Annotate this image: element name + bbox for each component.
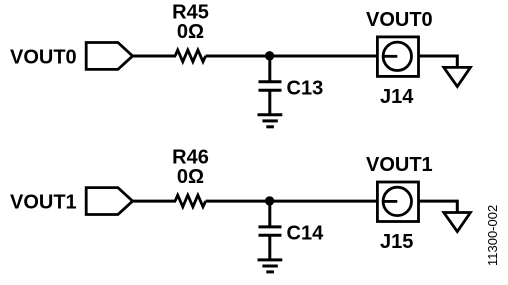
junction node	[265, 196, 274, 205]
wire junction to C13	[268, 56, 271, 82]
ground (C14)	[258, 260, 283, 272]
svg-text:J14: J14	[380, 86, 414, 108]
svg-text:11300-002: 11300-002	[485, 205, 500, 266]
wire J15 to ground	[419, 201, 458, 213]
svg-text:VOUT0: VOUT0	[10, 47, 77, 69]
svg-text:C13: C13	[287, 78, 324, 100]
junction node	[265, 51, 274, 60]
wire junction to C14	[268, 201, 271, 227]
wire pentagon to R45	[132, 55, 177, 58]
connector tag pentagon VOUT1	[86, 188, 132, 215]
wire J14 to ground	[419, 56, 458, 68]
connector tag pentagon VOUT0	[86, 43, 132, 70]
svg-text:C14: C14	[287, 223, 325, 245]
svg-text:VOUT0: VOUT0	[366, 9, 433, 31]
svg-text:0Ω: 0Ω	[177, 21, 204, 43]
wire C13 to ground	[268, 90, 271, 115]
capacitor C14	[259, 225, 282, 228]
ground (C13)	[258, 115, 283, 127]
capacitor C13	[259, 80, 282, 83]
svg-text:0Ω: 0Ω	[177, 166, 204, 188]
resistor R45	[175, 50, 206, 62]
svg-text:VOUT1: VOUT1	[10, 192, 77, 214]
connector J14	[377, 37, 418, 77]
ground triangle (J14)	[444, 67, 471, 86]
wire R46 to J15	[206, 200, 378, 203]
ground triangle (J15)	[444, 213, 471, 232]
svg-text:J15: J15	[380, 231, 413, 253]
wire C14 to ground	[268, 235, 271, 260]
resistor R46	[175, 195, 206, 207]
wire R45 to J14	[206, 55, 378, 58]
svg-text:VOUT1: VOUT1	[366, 154, 433, 176]
connector J15	[377, 182, 418, 222]
wire pentagon to R46	[132, 200, 177, 203]
